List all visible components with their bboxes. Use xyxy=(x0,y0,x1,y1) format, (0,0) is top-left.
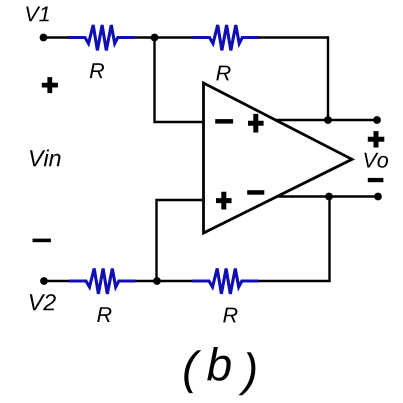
op-amp noninverting input plus sign xyxy=(216,192,232,210)
resistor R2 (top feedback) xyxy=(193,25,260,50)
junction node on bottom rail xyxy=(153,277,161,285)
junction node on top rail xyxy=(151,34,159,42)
op-amp U1 fully differential amplifier triangle xyxy=(204,83,353,233)
wire negative output xyxy=(277,195,378,197)
Vo negative polarity minus sign xyxy=(368,178,384,182)
resistor R4 (bottom feedback) xyxy=(192,269,259,294)
value label R of resistor R4 xyxy=(223,308,237,323)
Vo positive polarity plus sign xyxy=(368,131,385,147)
wire from bottom junction up to noninverting input xyxy=(157,200,204,281)
wire bottom rail from node V2 through resistors to feedback corner xyxy=(44,280,331,282)
wire top feedback vertical xyxy=(327,36,329,120)
Vin negative polarity minus sign xyxy=(33,239,51,243)
label V1 xyxy=(26,7,49,22)
op-amp inverting input minus sign xyxy=(215,119,233,124)
value label R of resistor R2 xyxy=(216,66,230,81)
op-amp inverting output minus sign xyxy=(247,190,264,195)
resistor R1 (top left) xyxy=(68,25,135,50)
caption closing parenthesis xyxy=(238,352,255,395)
node V2 input terminal xyxy=(40,277,48,285)
node V1 input terminal xyxy=(40,34,48,42)
label Vin xyxy=(30,150,61,167)
op-amp noninverting output plus sign xyxy=(248,114,264,133)
value label R of resistor R1 xyxy=(90,63,104,78)
wire bottom feedback vertical xyxy=(328,197,330,282)
label V2 xyxy=(30,294,56,310)
wire from top junction down to inverting input xyxy=(155,38,204,123)
junction node positive output feedback xyxy=(324,116,332,124)
wire top rail from node V1 through resistors to feedback corner xyxy=(44,36,329,38)
node positive output terminal xyxy=(373,116,381,124)
caption letter b xyxy=(207,347,231,381)
caption opening parenthesis xyxy=(184,350,201,393)
label Vo xyxy=(364,153,388,168)
wire positive output xyxy=(276,119,377,121)
Vin positive polarity plus sign xyxy=(42,77,58,93)
node negative output terminal xyxy=(374,193,382,201)
value label R of resistor R3 xyxy=(97,307,111,322)
resistor R3 (bottom left) xyxy=(69,269,136,294)
junction node negative output feedback xyxy=(325,193,333,201)
